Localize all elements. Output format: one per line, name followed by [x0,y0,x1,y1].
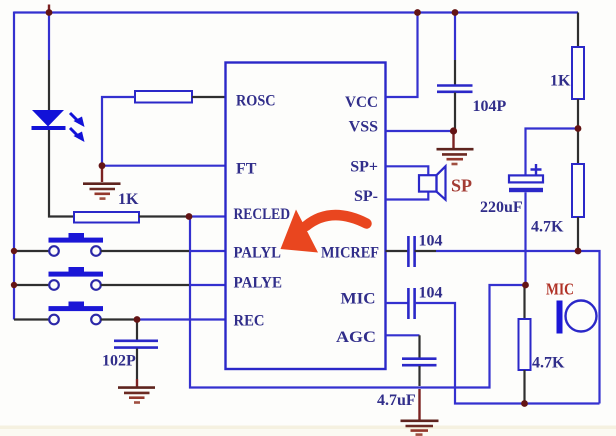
pushbutton S1 (PALYL) [14,233,226,256]
svg-text:SP+: SP+ [350,159,378,176]
ground 102P [118,379,155,403]
svg-text:104P: 104P [473,98,507,115]
wire left border [13,12,15,320]
node RECLED [186,213,193,220]
svg-text:SP-: SP- [354,188,378,205]
node REC cap [134,316,141,323]
svg-text:4.7uF: 4.7uF [377,392,416,409]
svg-text:MICREF: MICREF [321,245,379,262]
svg-text:AGC: AGC [336,329,376,346]
svg-text:220uF: 220uF [480,199,523,216]
svg-text:4.7K: 4.7K [532,355,565,372]
wire LED cathode to 1K [49,130,74,217]
capacitor 104 (MIC) [408,288,414,319]
resistor 4.7K (lower) [519,285,531,404]
capacitor 104P [437,13,473,132]
svg-text:PALYE: PALYE [234,275,283,292]
wire VCC to top rail [386,13,418,98]
wire MICREF long blue to mic [436,251,600,404]
svg-text:FT: FT [236,161,257,178]
node bottom 4.7K [521,400,528,407]
node top 104P [452,9,459,16]
svg-text:1K: 1K [118,191,139,208]
capacitor 4.7uF [402,335,437,386]
svg-text:104: 104 [419,233,443,250]
node top LED [46,9,53,16]
wire 1K to RECLED node [139,215,189,217]
wire MICREF mid black [415,250,436,252]
ground FT [83,166,121,199]
speaker SP [419,166,446,199]
wire AGC [386,334,420,336]
wire ROSC left and down to FT [102,97,135,166]
wire VSS [386,130,454,132]
wire ROSC right [192,96,226,98]
svg-text:VSS: VSS [349,119,378,136]
ground VSS [437,131,474,164]
svg-text:RECLED: RECLED [234,206,291,223]
wire AGC gnd stem red [418,389,420,420]
wire FT [102,165,226,167]
resistor 1K (RECLED) [74,212,139,223]
node 1K/4.7K [575,125,582,132]
wire RECLED node to pin [189,215,226,217]
LED D1 [32,110,85,142]
red annotation arrow [281,210,367,253]
svg-text:102P: 102P [102,353,136,370]
capacitor 104 (MICREF) [408,236,414,267]
microphone MIC [557,301,597,334]
node FT gnd [99,162,106,169]
pushbutton S3 (REC) [14,302,226,325]
wire MICREF left black [386,250,409,252]
IC U1 [226,63,386,370]
ground 4.7uF [401,421,439,435]
svg-text:VCC: VCC [345,94,378,111]
wire LED anode stub (red spike) [48,5,50,13]
capacitor 102P [114,320,158,380]
wire SP- [386,192,429,200]
svg-text:SP: SP [451,176,472,196]
node bias [522,282,529,289]
svg-text:PALYL: PALYL [234,245,282,262]
svg-text:MIC: MIC [546,280,574,299]
capacitor 220uF [509,164,543,192]
svg-text:MIC: MIC [341,290,376,307]
node MICREF mic [575,248,582,255]
wire MIC cap to bottom rail [415,303,600,404]
wire LED anode black [48,60,50,110]
resistor 4.7K (upper) [572,129,584,252]
wire node A to 220uF [526,129,579,176]
node border PALYE [11,282,17,288]
svg-text:4.7K: 4.7K [531,219,564,236]
node top VCC [414,9,421,16]
resistor 1K (right) [572,13,584,129]
wire LED anode blue [48,13,50,61]
svg-text:1K: 1K [550,73,571,90]
pushbutton S2 (PALYE) [14,267,226,290]
node border PALYL [11,248,17,254]
svg-text:ROSC: ROSC [236,93,276,110]
svg-text:104: 104 [419,285,443,302]
wire SP+ [386,166,429,175]
resistor ROSC [135,91,192,103]
wire top rail VCC [14,11,578,13]
wire MIC pin to cap [386,302,409,304]
svg-text:REC: REC [234,313,265,330]
wire long net RECLED-down-right-up (to mic bias node) [190,217,526,388]
node VSS gnd [450,127,457,134]
wire 220uF down to bias node [524,192,526,285]
decorative bottom band [0,426,616,430]
